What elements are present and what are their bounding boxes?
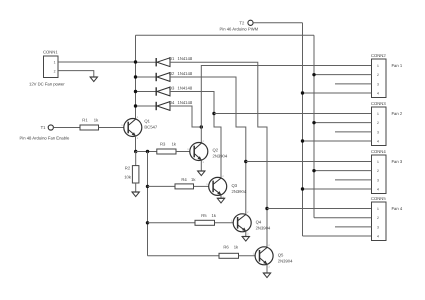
svg-text:3: 3: [377, 82, 379, 86]
junction CONN3 pin1 branch: [212, 112, 215, 115]
transistor Q5 2N3904: [253, 244, 274, 268]
connector CONN2: [372, 59, 387, 98]
transistor Q3 2N3904: [206, 175, 227, 199]
junction feeder branch: [146, 150, 149, 153]
svg-text:12V DC Fan power: 12V DC Fan power: [29, 82, 65, 87]
svg-text:Pin 48 Arduino Fan Enable: Pin 48 Arduino Fan Enable: [20, 136, 70, 141]
wire R2 bottom to ground: [135, 183, 137, 192]
label 12V DC Fan power: [29, 82, 65, 87]
CONN3 pin2 wire from 12V rail: [314, 122, 372, 124]
CONN1 pin 1 number: [54, 61, 56, 65]
svg-text:CONN4: CONN4: [371, 149, 386, 154]
wire R1 to Q1 base: [99, 127, 125, 129]
wire bus to D2: [136, 76, 157, 78]
D1 label: [169, 56, 193, 61]
svg-text:2: 2: [377, 73, 379, 77]
svg-text:3: 3: [377, 130, 379, 134]
Fan 2 label: [392, 111, 403, 116]
wire feeder to R5: [148, 222, 196, 224]
wire PWM vertical rail: [302, 23, 304, 236]
wire 12V rail to CONN5 pin2: [314, 217, 372, 219]
diode D1 1N4148: [156, 58, 170, 67]
wire D4 to Q2 collector: [170, 106, 201, 127]
svg-text:Q1: Q1: [144, 119, 150, 124]
diode D4 1N4148: [156, 102, 170, 111]
svg-text:Fan 4: Fan 4: [392, 206, 403, 211]
svg-text:Q2: Q2: [213, 147, 219, 152]
wire R5 to Q4 base: [215, 222, 234, 224]
svg-text:D3: D3: [169, 85, 175, 90]
CONN2 pin4 wire from PWM rail: [303, 92, 372, 94]
wire 12V rail right vertical: [313, 35, 315, 217]
T2 label: [239, 20, 245, 25]
svg-text:BC547: BC547: [144, 124, 157, 129]
wire CONN3 pin1: [214, 113, 372, 115]
svg-text:CONN5: CONN5: [371, 196, 386, 201]
svg-text:1N4148: 1N4148: [178, 100, 193, 105]
CONN2 pin2 wire from 12V rail: [314, 74, 372, 76]
D4 label: [169, 100, 193, 105]
Q5 labels: [278, 252, 293, 263]
R4 labels: [181, 177, 196, 182]
Fan 1 label: [392, 63, 403, 68]
svg-text:2: 2: [377, 216, 379, 220]
wire CONN1 pin1 to 12V bus: [58, 61, 136, 63]
diode D3 1N4148: [156, 87, 170, 96]
wire bus to D4: [136, 105, 157, 107]
junction Q1 emitter node: [134, 150, 137, 153]
svg-text:Q5: Q5: [278, 252, 284, 257]
CONN4 pin2 wire from 12V rail: [314, 170, 372, 172]
svg-text:3: 3: [377, 178, 379, 182]
Q2 labels: [213, 147, 228, 158]
svg-text:R4: R4: [181, 177, 187, 182]
CONN1 pin 2 number: [54, 69, 56, 73]
connector CONN4: [372, 155, 387, 194]
svg-text:4: 4: [377, 140, 379, 144]
svg-text:2N3904: 2N3904: [213, 153, 228, 158]
svg-text:2: 2: [377, 169, 379, 173]
wire Q4 emitter to ground: [245, 232, 247, 237]
junction bus/D3: [134, 90, 137, 93]
R6 labels: [223, 245, 239, 250]
resistor R6: [219, 253, 239, 258]
svg-text:R3: R3: [160, 142, 166, 147]
svg-text:CONN1: CONN1: [43, 50, 58, 55]
junction bus/D4: [134, 104, 137, 107]
wire Q2 collector vertical + CONN2 pin1: [201, 66, 371, 144]
resistor R3: [157, 149, 176, 154]
svg-text:1: 1: [54, 61, 56, 65]
wire PWM to CONN5 pin4: [303, 235, 372, 237]
terminal T1: [48, 125, 53, 130]
ground GND2 (R2): [132, 192, 139, 197]
wire R4 to Q3 base: [194, 185, 209, 187]
svg-text:10k: 10k: [124, 175, 132, 180]
svg-text:CONN2: CONN2: [371, 53, 386, 58]
junction feeder/Q3 row: [146, 185, 149, 188]
junction PWM/CONN3 pin4: [301, 139, 304, 142]
svg-text:T1: T1: [41, 125, 47, 130]
wire R6 to Q5 base: [239, 255, 256, 257]
wire emitter node to R3: [136, 151, 157, 153]
Fan 3 label: [392, 159, 403, 164]
junction 12V/CONN3 pin2: [312, 121, 315, 124]
CONN3 label: [371, 101, 386, 106]
svg-text:1: 1: [377, 207, 379, 211]
transistor Q2 2N3904: [187, 140, 208, 164]
transistor Q1 BC547: [121, 116, 142, 140]
CONN3 pin4 wire from PWM rail: [303, 140, 372, 142]
svg-text:1: 1: [377, 160, 379, 164]
ground GND3 (Q2): [198, 171, 205, 176]
wire Q3 emitter to ground: [220, 195, 222, 198]
wire Q1 emitter down: [135, 136, 137, 152]
CONN5 pin numbers: [377, 207, 379, 239]
svg-text:4: 4: [377, 235, 379, 239]
resistor R4: [175, 184, 194, 189]
svg-text:CONN3: CONN3: [371, 101, 386, 106]
svg-text:Fan 2: Fan 2: [392, 111, 403, 116]
svg-text:D1: D1: [169, 56, 175, 61]
junction feeder/Q4 row: [146, 221, 149, 224]
R2 labels: [124, 166, 132, 180]
svg-text:T2: T2: [239, 20, 245, 25]
wire 12V top rail: [136, 34, 315, 36]
resistor R5: [195, 220, 215, 225]
wire Q2 emitter to ground: [200, 161, 202, 172]
junction Q2 collector/D4: [200, 125, 203, 128]
wire D1 to Q5 collector (staircase): [170, 62, 267, 247]
wire bus to D1: [136, 61, 157, 63]
svg-text:3: 3: [377, 225, 379, 229]
wire R2 top: [135, 152, 137, 166]
wire CONN5 pin1: [267, 208, 372, 210]
junction bus/D1/12Vin: [134, 60, 137, 63]
CONN2 label: [371, 53, 386, 58]
connector CONN1 (12V DC fan power): [44, 56, 59, 78]
label Pin 48 Arduino Fan Enable: [20, 136, 70, 141]
svg-text:Fan 1: Fan 1: [392, 63, 403, 68]
svg-text:R6: R6: [223, 245, 229, 250]
connector CONN5: [372, 202, 387, 241]
junction CONN5 pin1 branch: [265, 207, 268, 210]
svg-text:2N3904: 2N3904: [278, 258, 293, 263]
terminal T2: [248, 20, 253, 25]
Q4 labels: [256, 219, 271, 230]
junction PWM/CONN4 pin4: [301, 187, 304, 190]
junction 12V/CONN4 pin2: [312, 169, 315, 172]
svg-text:1N4148: 1N4148: [178, 71, 193, 76]
junction PWM/CONN2 pin4: [301, 91, 304, 94]
wire R3 to Q2 base: [176, 151, 190, 153]
svg-text:2: 2: [54, 69, 56, 73]
svg-text:Q4: Q4: [256, 219, 262, 224]
ground GND1 (power input): [90, 77, 97, 82]
wire T2 PWM horizontal: [253, 22, 302, 24]
wire D3 to Q3 collector (staircase): [170, 92, 221, 178]
resistor R2: [132, 166, 139, 183]
CONN5 pin3 stub: [335, 226, 372, 228]
svg-text:Q3: Q3: [232, 183, 238, 188]
svg-text:2: 2: [377, 121, 379, 125]
R3 labels: [160, 142, 177, 147]
wire feeder vertical: [147, 152, 149, 256]
wire Q5 emitter to ground: [266, 265, 268, 273]
svg-text:D2: D2: [169, 71, 175, 76]
wire bus to D3: [136, 91, 157, 93]
svg-text:1N4148: 1N4148: [178, 56, 193, 61]
svg-text:1: 1: [377, 112, 379, 116]
svg-text:R2: R2: [125, 166, 131, 171]
D2 label: [169, 71, 193, 76]
transistor Q4 2N3904: [231, 211, 252, 235]
svg-text:4: 4: [377, 92, 379, 96]
T1 label: [41, 125, 47, 130]
wire feeder to R4: [148, 185, 176, 187]
svg-text:R5: R5: [201, 213, 207, 218]
CONN3 pin numbers: [377, 112, 379, 144]
resistor R1: [80, 125, 99, 130]
ground GND5 (Q4): [242, 237, 249, 242]
CONN2 pin numbers: [377, 64, 379, 96]
Q3 labels: [232, 183, 247, 194]
D3 label: [169, 85, 193, 90]
wire D2 to Q4 collector (staircase): [170, 77, 246, 214]
CONN4 pin3 stub: [335, 179, 372, 181]
wire feeder to R6: [148, 255, 220, 257]
svg-text:Fan 3: Fan 3: [392, 159, 403, 164]
svg-text:2N3904: 2N3904: [256, 225, 271, 230]
svg-text:1N4148: 1N4148: [178, 85, 193, 90]
CONN5 label: [371, 196, 386, 201]
junction 12V/CONN2 pin2: [312, 73, 315, 76]
CONN2 pin3 stub: [335, 83, 372, 85]
wire T1 to R1: [53, 127, 80, 129]
connector CONN3: [372, 107, 387, 146]
junction CONN4 pin1 branch: [244, 160, 247, 163]
Fan 4 label: [392, 206, 403, 211]
CONN4 pin4 wire from PWM rail: [303, 188, 372, 190]
CONN3 pin3 stub: [335, 131, 372, 133]
label Pin 46 Arduino PWM: [220, 27, 259, 32]
wire 12V vertical bus: [135, 35, 137, 119]
svg-text:R1: R1: [82, 118, 88, 123]
R5 labels: [201, 213, 217, 218]
svg-text:D4: D4: [169, 100, 175, 105]
svg-text:Pin 46 Arduino PWM: Pin 46 Arduino PWM: [220, 27, 259, 32]
svg-text:4: 4: [377, 188, 379, 192]
svg-text:1: 1: [377, 64, 379, 68]
CONN1 label: [43, 50, 58, 55]
CONN4 pin numbers: [377, 160, 379, 192]
junction bus/D2: [134, 75, 137, 78]
wire CONN4 pin1: [246, 161, 372, 163]
ground GND4 (Q3): [217, 198, 224, 203]
R1 labels: [82, 118, 99, 123]
svg-text:2N3904: 2N3904: [232, 189, 247, 194]
ground GND6 (Q5): [263, 273, 270, 278]
diode D2 1N4148: [156, 73, 170, 82]
Q1 labels: [144, 119, 157, 130]
wire CONN1 pin2 to ground: [58, 71, 94, 77]
CONN4 label: [371, 149, 386, 154]
